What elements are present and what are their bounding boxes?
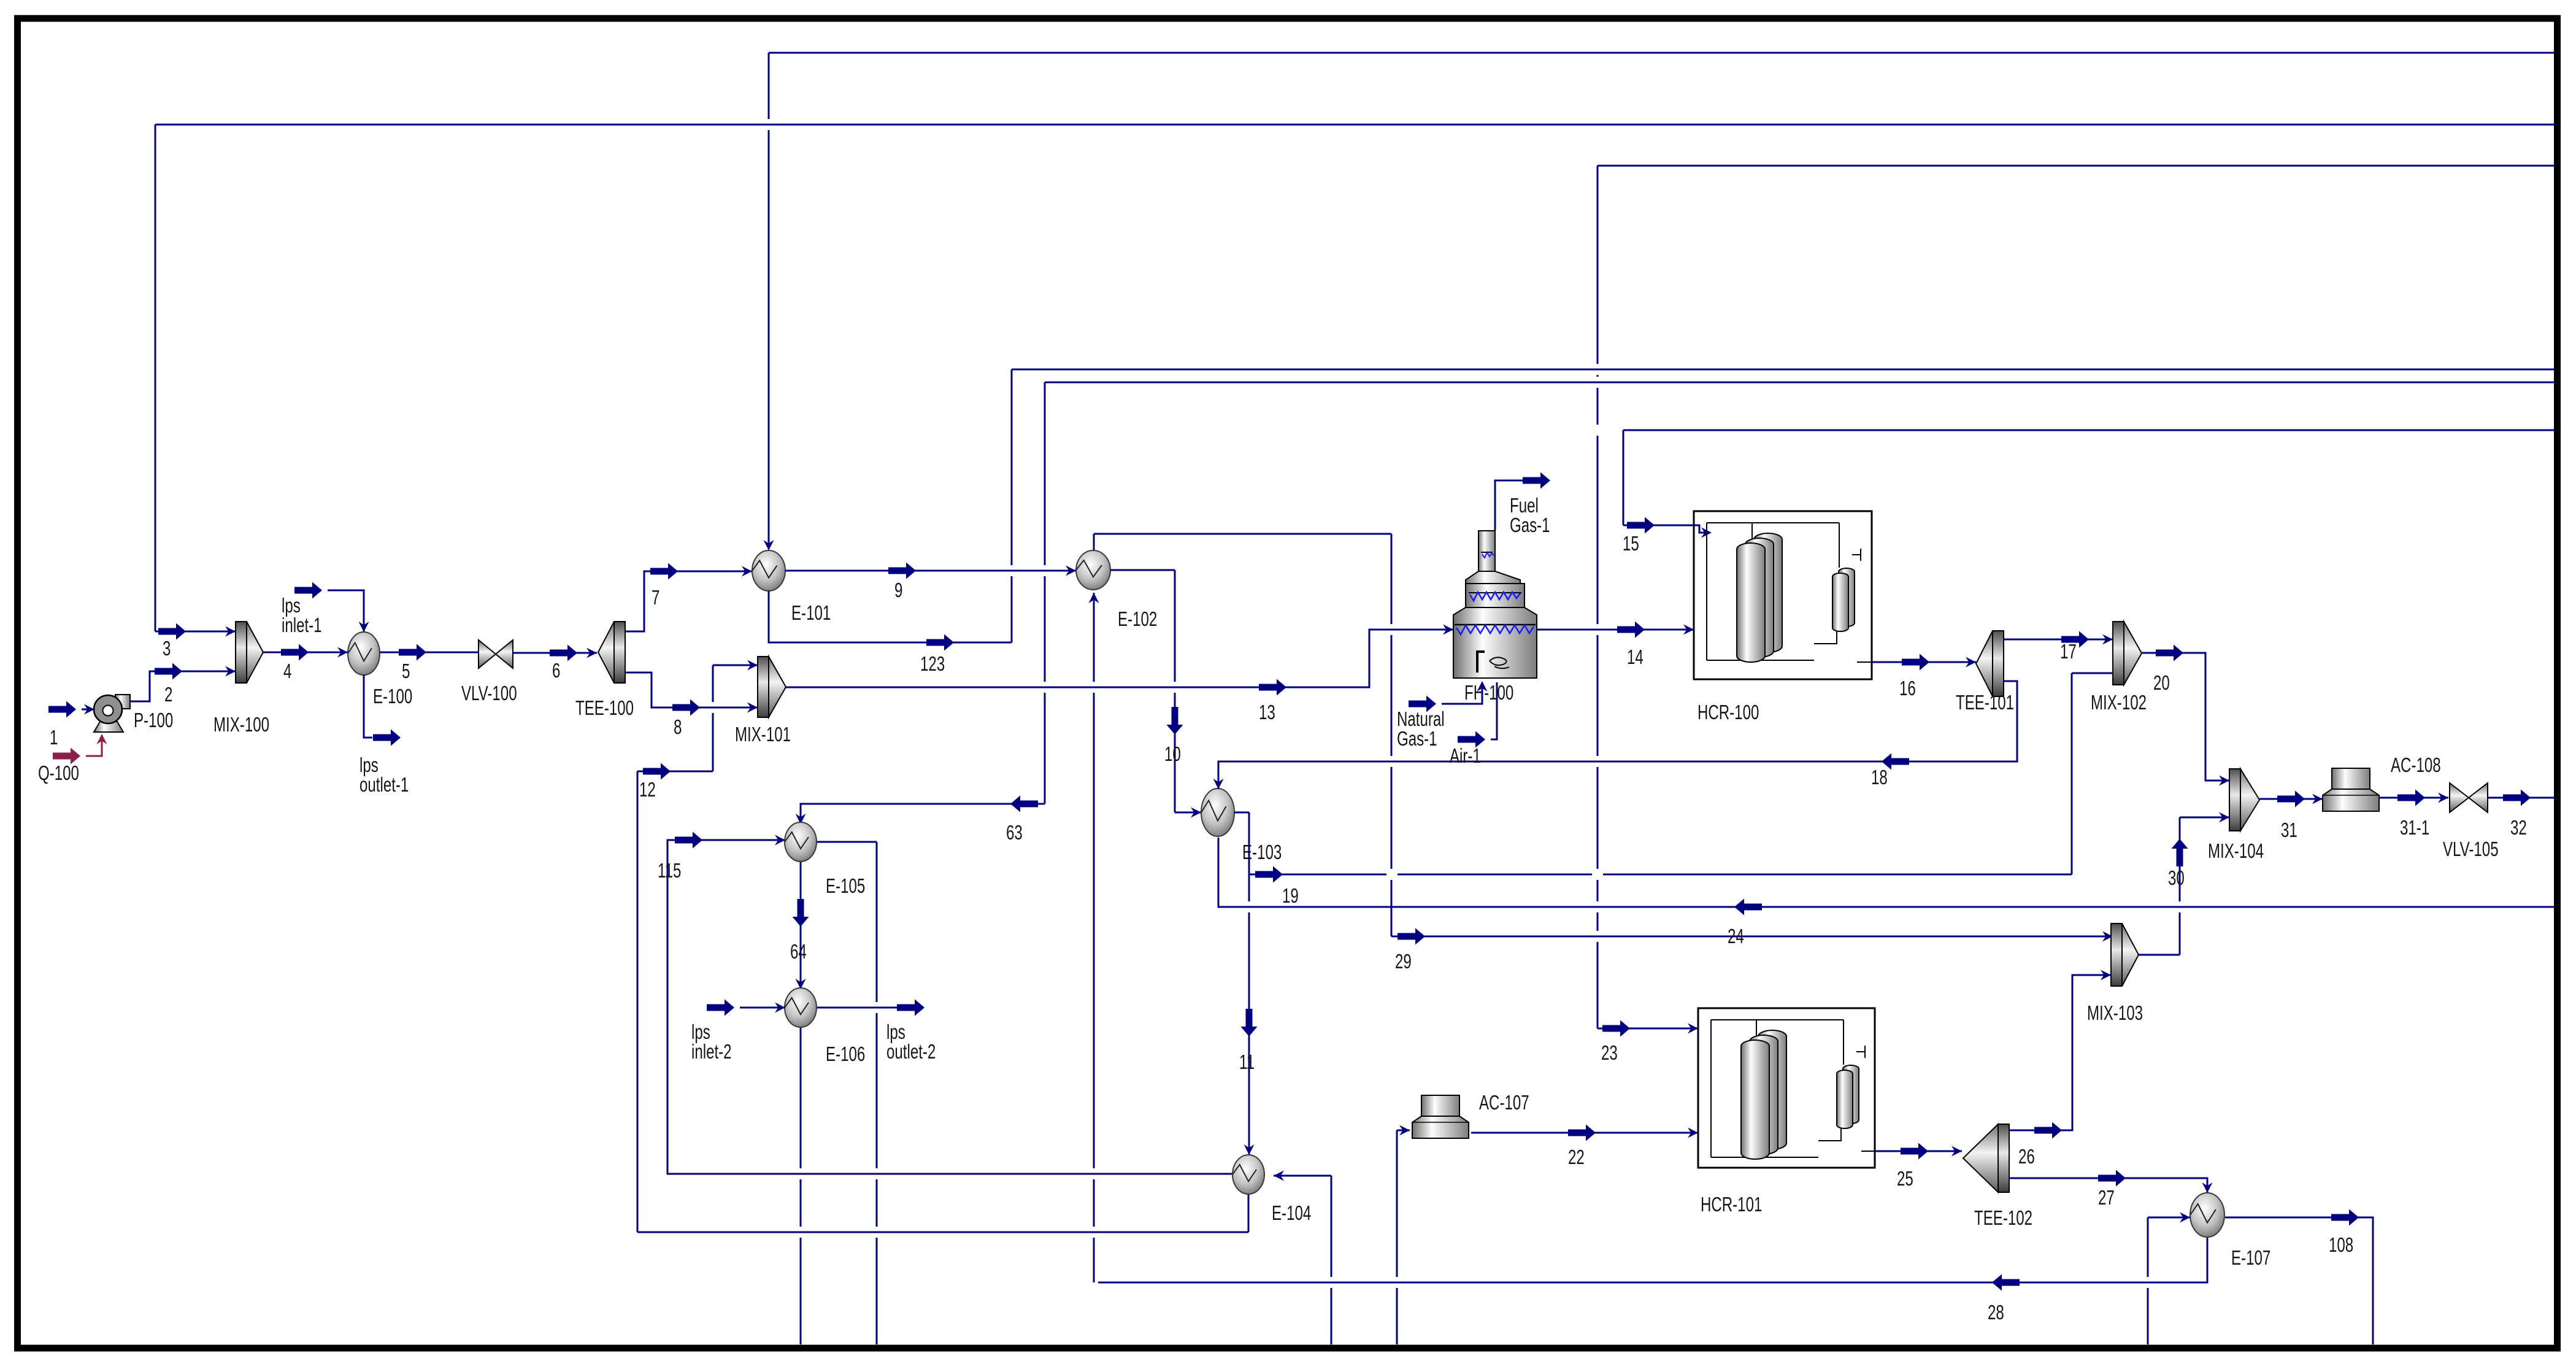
svg-text:31-1: 31-1 [2400, 817, 2429, 839]
svg-text:115: 115 [658, 860, 681, 882]
arrowhead 10 into E-103 [1191, 808, 1201, 818]
wire stream 30 [2139, 817, 2229, 955]
wire stream 13 [786, 630, 1453, 687]
wire stream 32 [2488, 797, 2555, 799]
wire stream 24 [1218, 838, 2555, 907]
arrow stream 25 [1901, 1143, 1928, 1160]
arrowhead 28 into E-102 bottom [1089, 593, 1099, 603]
arrow Natural Gas-1 [1409, 696, 1436, 712]
arrowhead 7 into E-101 [742, 566, 752, 577]
arrow stream 13 [1259, 679, 1286, 696]
wire stream 20 [2142, 653, 2229, 781]
arrowhead 9 into E-102 [1066, 566, 1076, 576]
arrowhead 29 into MIX-103 [2102, 931, 2113, 942]
arrowhead 64 into E-106 [796, 979, 806, 989]
wire stream 1 [82, 709, 94, 711]
arrow stream 26 [2034, 1122, 2062, 1139]
svg-text:25: 25 [1897, 1168, 1913, 1190]
wire stream 19 [1234, 673, 2113, 874]
svg-text:MIX-100: MIX-100 [213, 714, 269, 736]
arrow stream 28 [1992, 1274, 2020, 1291]
wire stream 5 [380, 652, 478, 654]
wire stream 18 [1218, 681, 2017, 789]
svg-text:VLV-100: VLV-100 [461, 682, 517, 705]
wire stream 108 [2225, 1217, 2373, 1344]
wire lps outlet-2 [817, 1007, 897, 1009]
svg-text:108: 108 [2329, 1234, 2353, 1257]
wire stream 10 [1110, 570, 1201, 812]
pump P-100 [94, 695, 130, 732]
arrow stream 2 [155, 663, 182, 680]
valve VLV-100 [479, 640, 513, 668]
wire stream-15 riser x2646 [1623, 430, 1624, 525]
svg-text:TEE-102: TEE-102 [1974, 1207, 2032, 1230]
wire lps outlet-1 [364, 675, 372, 738]
svg-text:17: 17 [2060, 641, 2077, 663]
svg-text:63: 63 [1006, 822, 1023, 844]
wire stream 17 [2004, 639, 2113, 641]
svg-text:E-107: E-107 [2231, 1247, 2270, 1270]
arrowhead 63 into E-105 [796, 814, 806, 824]
arrowhead 4 into E-100 [337, 647, 348, 658]
arrowhead into P-100 [84, 704, 94, 715]
svg-text:1: 1 [50, 727, 58, 749]
reactor HCR-100 [1694, 511, 1872, 679]
arrow stream 32 [2503, 790, 2531, 806]
svg-text:19: 19 [1282, 885, 1299, 908]
svg-text:MIX-103: MIX-103 [2087, 1002, 2143, 1025]
arrow stream 18 [1882, 754, 1909, 770]
arrowhead 22 into HCR-101 [1688, 1128, 1698, 1138]
heat-exchanger E-102 [1076, 550, 1110, 590]
svg-text:E-106: E-106 [826, 1043, 865, 1066]
wire stream-15 bus y701 [1623, 430, 2555, 431]
svg-text:10: 10 [1164, 743, 1181, 766]
arrowhead 115 into E-105 [775, 835, 785, 846]
arrowhead 25 into TEE-102 [1951, 1146, 1962, 1157]
arrowhead Q-100 into pump [97, 734, 107, 744]
wire stream 2 [129, 671, 236, 701]
arrow stream 9 [888, 563, 916, 579]
svg-text:E-101: E-101 [791, 602, 831, 625]
wire stream 4 [263, 652, 348, 654]
arrow stream 23 [1602, 1020, 1630, 1037]
svg-text:3: 3 [163, 638, 171, 660]
wire stream-63 bus y623 [1045, 382, 2555, 384]
svg-text:E-105: E-105 [826, 875, 865, 898]
arrow stream 108 [2331, 1209, 2359, 1226]
wire stream 31 [2259, 798, 2323, 800]
wire Natural Gas-1 [1442, 682, 1482, 704]
arrow stream 115 [675, 832, 702, 849]
wire stream 8 [625, 673, 758, 707]
arrow stream 24 [1734, 899, 1762, 916]
arrowhead lps inlet-2 into E-106 [775, 1003, 785, 1013]
svg-text:14: 14 [1627, 646, 1644, 669]
svg-text:16: 16 [1899, 677, 1916, 700]
svg-text:Q-100: Q-100 [38, 762, 79, 785]
svg-text:Gas-1: Gas-1 [1397, 728, 1437, 750]
wire stream-A recycle top y86 [769, 52, 2555, 54]
arrowhead 31-1 into VLV-105 [2438, 793, 2448, 803]
arrow stream 64 down [793, 899, 809, 927]
arrow stream 19 [1255, 866, 1283, 883]
wire E-105 outlet line [817, 842, 877, 1344]
air-cooler AC-107 [1412, 1095, 1469, 1138]
svg-text:7: 7 [652, 587, 659, 609]
svg-text:6: 6 [552, 660, 560, 682]
svg-text:VLV-105: VLV-105 [2443, 838, 2499, 861]
arrowhead NG into FH-100 [1477, 681, 1488, 692]
svg-text:24: 24 [1728, 925, 1744, 948]
arrowhead 14 into HCR-100 [1683, 625, 1694, 635]
tee TEE-100 [598, 622, 625, 683]
arrow lps inlet-2 [707, 1000, 734, 1016]
arrow stream 11 down [1241, 1009, 1258, 1036]
svg-text:E-104: E-104 [1272, 1202, 1311, 1225]
svg-text:20: 20 [2153, 672, 2170, 695]
arrow lps outlet-2 [897, 1000, 925, 1016]
wire stream 31-1 [2379, 797, 2448, 799]
wire stream 16 [1872, 661, 1976, 663]
arrow stream 14 [1617, 622, 1645, 638]
arrowhead 15 into HCR-100 [1701, 528, 1712, 538]
mixer MIX-104 [2229, 769, 2259, 831]
arrowhead 2 into MIX-100 [225, 666, 236, 677]
arrow stream 27 [2098, 1170, 2126, 1187]
svg-text:123: 123 [920, 653, 945, 676]
wire stream 14 [1537, 629, 1694, 631]
svg-text:outlet-1: outlet-1 [359, 774, 409, 796]
arrowhead 30 into MIX-104 [2219, 812, 2229, 823]
wire stream 22 [1471, 1132, 1698, 1134]
heat-exchanger E-101 [752, 550, 785, 591]
arrow stream 29 [1398, 928, 1425, 945]
wire Q-100 [86, 736, 102, 756]
heat-exchanger E-104 [1232, 1155, 1264, 1194]
air-cooler AC-108 [2323, 768, 2379, 811]
svg-text:E-100: E-100 [373, 685, 412, 708]
heat-exchanger E-106 [785, 988, 817, 1027]
tee TEE-102 [1963, 1124, 2009, 1192]
wire stream-63 riser x1703 [1044, 382, 1046, 804]
svg-text:31: 31 [2281, 819, 2297, 842]
svg-text:28: 28 [1988, 1301, 2004, 1324]
arrowhead 23 into HCR-101 [1688, 1024, 1698, 1034]
wire stream 26 [2009, 975, 2111, 1130]
svg-text:22: 22 [1568, 1146, 1585, 1169]
wire E-106 bottom line [800, 1028, 802, 1344]
mixer MIX-101 [758, 657, 786, 717]
svg-text:64: 64 [790, 941, 807, 963]
svg-text:outlet-2: outlet-2 [886, 1041, 936, 1063]
wire stream-23 bus y270 [1598, 165, 2555, 167]
wire E-104 side feed riser [1274, 1176, 1331, 1344]
arrowhead 17 into MIX-102 [2102, 634, 2113, 645]
heat-exchanger E-100 [348, 632, 380, 675]
arrowhead into MIX-103 bottom [2101, 970, 2111, 981]
wire stream 28 [1098, 1238, 2207, 1282]
heat-exchanger E-105 [785, 822, 817, 862]
wire stream-123 riser x1649 [1011, 369, 1013, 642]
wire stream 7 [625, 571, 752, 631]
arrow stream 63 [1010, 796, 1038, 812]
arrowhead lps inlet-1 into E-100 [359, 622, 369, 632]
arrowhead 16 into TEE-101 [1966, 657, 1976, 668]
arrow stream 30 up [2172, 839, 2188, 866]
arrowhead 3 into MIX-100 [225, 627, 236, 637]
arrowhead 11 into E-104 top [1244, 1144, 1255, 1155]
arrowhead 27 into E-107 [2202, 1182, 2213, 1193]
arrow stream 1 [48, 701, 76, 718]
wire stream-23 vertical x2604 [1597, 166, 1599, 1028]
wire lps inlet-1 [328, 590, 364, 632]
svg-text:FH-100: FH-100 [1464, 682, 1513, 704]
svg-text:E-102: E-102 [1118, 608, 1157, 631]
wire stream 115 [667, 840, 1232, 1174]
svg-text:MIX-102: MIX-102 [2091, 692, 2147, 714]
svg-text:8: 8 [674, 716, 682, 739]
svg-text:11: 11 [1239, 1051, 1255, 1074]
svg-text:MIX-104: MIX-104 [2208, 840, 2264, 863]
fired heater FH-100 [1453, 531, 1537, 678]
arrowhead 31 into AC-108 [2312, 794, 2323, 804]
valve VLV-105 [2450, 783, 2488, 812]
svg-text:AC-108: AC-108 [2391, 754, 2441, 777]
svg-text:29: 29 [1395, 950, 1412, 973]
wire stream 64 [800, 862, 802, 989]
wire stream-3 vertical [155, 125, 156, 631]
arrowhead 6 into TEE-100 [586, 648, 597, 658]
heat-exchanger E-107 [2190, 1193, 2224, 1237]
wire stream 27 [2009, 1178, 2207, 1193]
wire stream 9 [785, 570, 1076, 572]
svg-text:12: 12 [639, 779, 656, 801]
heat-exchanger E-103 [1201, 788, 1234, 836]
wire stream 29 [1094, 534, 2113, 936]
svg-text:30: 30 [2168, 867, 2185, 890]
svg-text:inlet-1: inlet-1 [282, 614, 322, 637]
arrow stream 3 [158, 623, 186, 640]
svg-text:27: 27 [2098, 1187, 2115, 1209]
svg-text:Gas-1: Gas-1 [1510, 514, 1550, 537]
wire stream-3 bus y203 [155, 124, 2555, 126]
arrow stream 123 [926, 634, 954, 651]
svg-text:26: 26 [2018, 1146, 2035, 1168]
arrow stream 16 [1902, 654, 1929, 671]
arrowhead side feed into E-107 [2180, 1213, 2190, 1223]
arrow stream 5 [399, 644, 426, 661]
arrow Fuel Gas-1 [1523, 472, 1550, 489]
arrow stream 8 [672, 700, 700, 716]
arrow stream 15 [1627, 517, 1655, 534]
arrow stream 10 down [1167, 707, 1183, 734]
svg-text:HCR-100: HCR-100 [1697, 701, 1759, 724]
wire stream 11 vertical [1248, 874, 1250, 1155]
svg-text:Air-1: Air-1 [1450, 745, 1481, 768]
svg-text:inlet-2: inlet-2 [691, 1041, 732, 1063]
arrow stream 31-1 [2397, 790, 2425, 806]
wire E-107 side feed riser [2148, 1217, 2190, 1344]
arrowhead side feed into E-104 [1274, 1171, 1284, 1181]
arrow stream 4 [281, 644, 309, 661]
svg-text:MIX-101: MIX-101 [735, 723, 791, 746]
svg-text:9: 9 [894, 579, 902, 602]
wire stream 12 riser [637, 665, 1248, 1232]
wire stream 25 [1875, 1151, 1962, 1152]
wire stream-123 bus y602 [1012, 369, 2555, 371]
wire Air-1 [1491, 682, 1497, 739]
svg-text:TEE-100: TEE-100 [575, 697, 634, 720]
arrow stream 31 [2277, 791, 2305, 808]
arrow stream 7 [650, 563, 678, 580]
svg-text:P-100: P-100 [134, 709, 173, 732]
wire stream 123 [769, 591, 1012, 642]
svg-text:HCR-101: HCR-101 [1701, 1193, 1762, 1216]
svg-text:TEE-101: TEE-101 [1956, 692, 2014, 714]
tee TEE-101 [1976, 631, 2004, 696]
arrow stream 20 [2156, 645, 2183, 661]
svg-text:23: 23 [1601, 1042, 1618, 1065]
wire stream 63 [801, 804, 1045, 824]
arrowhead into AC-107 [1399, 1125, 1410, 1136]
wire stream 15 entry [1623, 525, 1707, 533]
mixer MIX-103 [2111, 923, 2139, 986]
wire stream 23 [1598, 1028, 1698, 1030]
svg-text:4: 4 [283, 660, 291, 683]
arrow lps outlet-1 [373, 730, 401, 746]
wire stream-A vertical into E-101 [768, 53, 770, 549]
arrow stream 22 [1568, 1125, 1596, 1141]
wire lps inlet-2 [740, 1007, 785, 1009]
arrowhead recycle into E-101 top [764, 540, 774, 550]
arrowhead 13 into FH-100 [1443, 625, 1453, 635]
mixer MIX-102 [2113, 622, 2142, 685]
svg-text:18: 18 [1871, 766, 1888, 789]
mixer MIX-100 [236, 622, 263, 683]
svg-text:2: 2 [164, 684, 172, 706]
arrow stream 17 [2061, 631, 2089, 648]
svg-text:15: 15 [1623, 533, 1639, 555]
svg-text:32: 32 [2510, 817, 2527, 839]
arrow lps inlet-1 [294, 582, 322, 599]
wire stream 3 into MIX-100 [155, 631, 236, 633]
svg-text:13: 13 [1259, 701, 1275, 724]
reactor HCR-101 [1698, 1008, 1875, 1168]
arrowhead 8 into MIX-101 [747, 703, 758, 713]
arrowhead 18 into E-103 top [1213, 779, 1224, 789]
wire Fuel Gas-1 [1495, 480, 1523, 530]
arrow Q-100 [53, 748, 80, 765]
wire AC-107 feed riser [1397, 1130, 1410, 1344]
arrow stream 6 [550, 645, 577, 661]
wire stream 28 riser to E-102 [1093, 593, 1095, 1282]
arrowhead 20 into MIX-104 [2219, 776, 2229, 786]
wire stream 6 [513, 652, 597, 654]
arrow Air-1 [1458, 731, 1485, 748]
arrowhead 12 into MIX-101 [747, 660, 758, 671]
svg-text:5: 5 [402, 660, 410, 683]
svg-text:AC-107: AC-107 [1479, 1092, 1529, 1114]
arrow stream 12 [643, 763, 671, 780]
